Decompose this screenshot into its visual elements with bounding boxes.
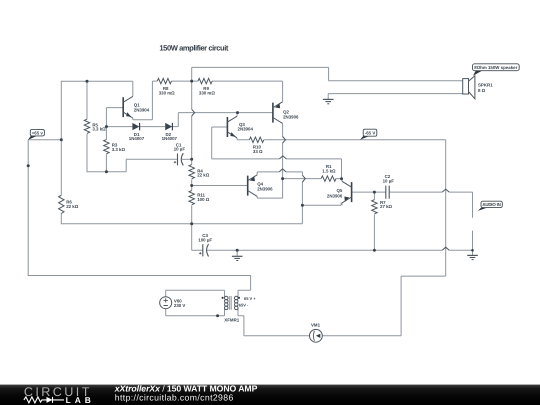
wire Q5 emitter row — [302, 202, 341, 205]
wire Q1 base / R3 column — [106, 108, 123, 172]
wire +65 flag tap — [28, 139, 61, 141]
voltage source V60 — [160, 297, 172, 309]
wire audio segment lower — [472, 231, 474, 256]
node junction dots — [27, 80, 474, 318]
svg-text:100 Ω: 100 Ω — [197, 197, 210, 202]
svg-text:100 µF: 100 µF — [198, 238, 212, 243]
wire diode row — [106, 113, 178, 127]
capacitor C1 — [174, 153, 184, 165]
resistor R1 — [321, 176, 336, 181]
wire hop v x282.6 over y139.8 — [283, 137, 286, 144]
ground (audio in) — [467, 255, 478, 259]
resistor R5 — [84, 119, 89, 133]
svg-text:2N3904: 2N3904 — [238, 127, 254, 132]
svg-text:330 mΩ: 330 mΩ — [159, 91, 175, 96]
svg-text:27 kΩ: 27 kΩ — [380, 204, 393, 209]
transistor Q5 — [342, 179, 352, 206]
transformer XFMR1 — [222, 296, 241, 310]
svg-text:AUDIO IN: AUDIO IN — [482, 202, 501, 207]
wire audio segment upper — [472, 192, 474, 218]
svg-text:2N3904: 2N3904 — [134, 108, 150, 113]
wire C2 to audio corner — [389, 191, 472, 193]
svg-text:1N4007: 1N4007 — [129, 136, 145, 141]
footer bar — [0, 384, 540, 405]
voltmeter VM1 — [310, 329, 323, 342]
wire Q5 base to C2 — [352, 191, 386, 193]
svg-text:330 mΩ: 330 mΩ — [199, 91, 215, 96]
ground (speaker) — [323, 99, 334, 103]
wire R9 leads — [192, 81, 283, 102]
wire R5 leads — [87, 81, 178, 171]
transistor Q3 — [227, 116, 237, 138]
svg-text:65V -: 65V - — [239, 303, 249, 308]
resistor R7 — [372, 200, 377, 214]
wire Q2 collector drop — [257, 124, 282, 199]
wire Q3 base feedback run — [212, 127, 342, 179]
wire speaker ground row — [328, 94, 463, 99]
wire bottom meter run — [238, 276, 446, 336]
wire hop v x302.4 over y178.6 — [302, 175, 305, 182]
wire right rail drop x445.7 — [445, 140, 447, 276]
wire Q1 collector stub — [132, 81, 134, 96]
svg-text:-65 V: -65 V — [365, 130, 376, 135]
wire secondary top stub — [237, 290, 239, 298]
resistor R3 — [104, 140, 109, 154]
svg-text:65 V +: 65 V + — [244, 296, 256, 301]
svg-text:8Ohm 150W speaker: 8Ohm 150W speaker — [474, 65, 517, 70]
svg-text:http://circuitlab.com/cnt2986: http://circuitlab.com/cnt2986 — [115, 393, 234, 403]
wire center column x191.7 — [192, 67, 203, 250]
wire R8 leads — [152, 80, 191, 82]
svg-text:3.3 kΩ: 3.3 kΩ — [92, 127, 106, 132]
svg-text:10 µF: 10 µF — [383, 178, 395, 183]
wire top rail — [61, 80, 132, 82]
svg-text:230 V: 230 V — [174, 303, 186, 308]
wire hop h y192.1 over x445.7 — [442, 189, 449, 192]
svg-text:2N3906: 2N3906 — [257, 187, 273, 192]
transistor Q4 — [248, 172, 258, 198]
resistor R4 — [189, 165, 194, 179]
svg-text:2N3906: 2N3906 — [327, 194, 343, 199]
ground (C3) — [232, 256, 243, 260]
svg-text:150W amplifier circuit: 150W amplifier circuit — [159, 43, 228, 52]
capacitor C2 — [386, 186, 389, 199]
wire Q1 emitter loop — [133, 81, 153, 120]
wire left rail — [60, 81, 62, 196]
svg-text:3.3 kΩ: 3.3 kΩ — [112, 147, 126, 152]
svg-text:LAB: LAB — [66, 395, 92, 405]
diode D1 — [132, 123, 139, 130]
wire R6 bottom to mid bus — [61, 214, 303, 225]
wire Q4 emitter drop x302 — [301, 172, 303, 224]
node flag AUDIO IN — [478, 201, 503, 211]
wire R7 leads — [373, 192, 375, 250]
node flag -65V — [360, 129, 377, 140]
resistor R6 — [59, 195, 64, 213]
svg-text:22 kΩ: 22 kΩ — [197, 173, 210, 178]
speaker SPKR1 — [463, 76, 475, 99]
resistor R11 — [189, 191, 194, 205]
wire R1 row — [283, 178, 342, 180]
node flag +65v — [28, 130, 44, 140]
hop chevrons — [192, 109, 450, 250]
wire hop h y158.9 over x282.9 — [279, 156, 286, 159]
wire hop h y250.2 over x445.7 — [442, 247, 449, 250]
svg-text:10 µF: 10 µF — [174, 147, 186, 152]
svg-text:8 Ω: 8 Ω — [478, 88, 486, 93]
wire hop v x191.7 over y112.6 — [192, 109, 195, 116]
svg-text:1N4007: 1N4007 — [162, 136, 178, 141]
svg-text:22 kΩ: 22 kΩ — [66, 204, 79, 209]
wire Q4 emitter row — [257, 171, 302, 173]
transistor Q1 — [123, 96, 133, 118]
svg-text:XFMR1: XFMR1 — [224, 318, 239, 323]
node flag 8Ohm 150W speaker — [473, 64, 520, 76]
wire Q3 collector stub — [236, 113, 238, 116]
svg-text:Q1: Q1 — [134, 102, 140, 107]
svg-text:1.5 kΩ: 1.5 kΩ — [322, 169, 336, 174]
resistor R8 — [157, 78, 171, 83]
resistor R10 — [249, 137, 263, 142]
wire minus65 rail — [264, 139, 446, 141]
transistor Q2 — [273, 102, 283, 124]
diode D2 — [165, 123, 172, 130]
capacitor C3 — [199, 244, 209, 256]
svg-text:33 Ω: 33 Ω — [253, 149, 263, 154]
svg-text:VM1: VM1 — [311, 323, 321, 328]
wire Q2 base row — [178, 112, 273, 114]
svg-text:+65 v: +65 v — [32, 130, 44, 135]
wire C1 right to column — [182, 158, 192, 160]
svg-text:Q5: Q5 — [336, 188, 342, 193]
svg-text:2N3906: 2N3906 — [283, 115, 299, 120]
wire hop h y171.9 over x282.6 — [279, 169, 286, 172]
wire bottom supply run — [28, 275, 251, 290]
wire primary loop — [166, 290, 225, 315]
wire Q3 emitter to R10 — [237, 138, 249, 140]
wire top output run — [192, 67, 463, 80]
wire ground bus row — [207, 250, 472, 256]
resistor R9 — [198, 78, 212, 83]
wire Q4 base row — [192, 185, 248, 187]
wire left drop — [27, 140, 29, 276]
